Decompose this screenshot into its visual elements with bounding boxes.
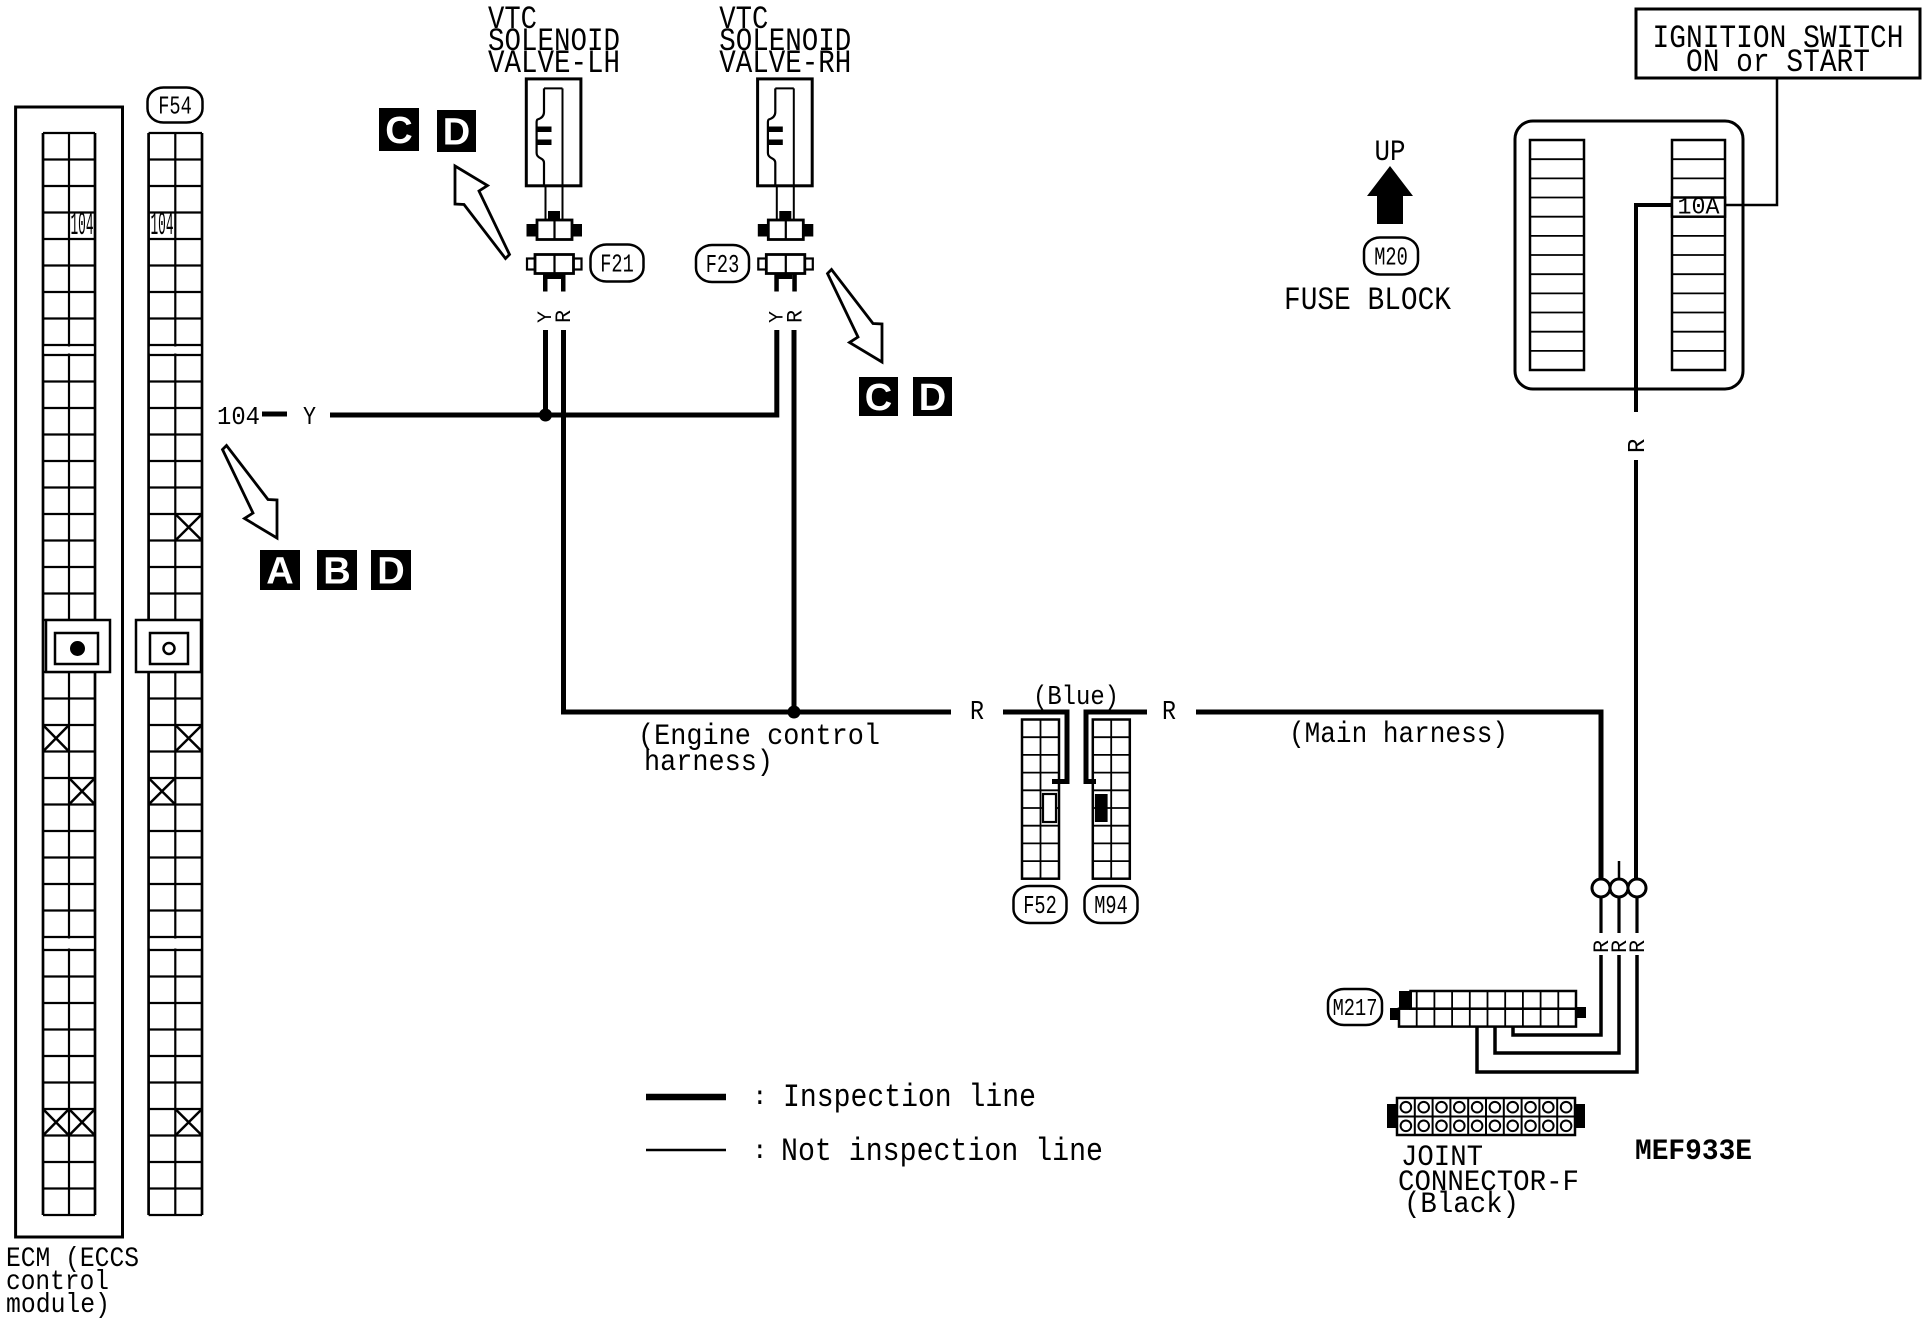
connector F52 label (1014, 886, 1067, 923)
X marks (F54 strip) (149, 514, 202, 1136)
svg-text::: : (752, 1082, 768, 1112)
wire LH Y vertical (543, 330, 548, 415)
callout boxes C D (top left) (379, 108, 476, 154)
joint connector F (1387, 1098, 1585, 1135)
svg-text:ON or START: ON or START (1686, 44, 1870, 81)
svg-text:R: R (970, 698, 984, 728)
svg-text:M20: M20 (1374, 243, 1408, 273)
solenoid valve LH body (526, 79, 581, 186)
coil RH (767, 127, 783, 133)
wire fuse to inline connector (1634, 460, 1638, 879)
fuse column right (1672, 140, 1725, 370)
svg-text:104: 104 (71, 207, 94, 244)
fuse 10A (1672, 195, 1725, 222)
svg-text::: : (752, 1136, 768, 1166)
VTC solenoid valve LH label (488, 1, 620, 82)
svg-text:VALVE-RH: VALVE-RH (719, 45, 851, 82)
arrow to A B D (223, 446, 278, 539)
svg-text:Not inspection line: Not inspection line (781, 1133, 1103, 1170)
wires to joint connector (loops) (1477, 897, 1637, 1072)
connector M217 (1390, 991, 1586, 1027)
fuse column left (1530, 140, 1584, 370)
connector F21 label (591, 245, 644, 282)
F54 terminal box (open circle) (136, 620, 201, 672)
valve LH connector (male half) (527, 186, 583, 240)
svg-text:R: R (1162, 698, 1176, 728)
wire into M94 (1086, 712, 1147, 782)
connector M20 label (1364, 238, 1418, 275)
svg-text:UP: UP (1375, 136, 1406, 170)
wire ignition switch to fuse (1725, 78, 1777, 205)
label ECM (ECCS control module) (6, 1244, 139, 1321)
inline connector circles (1592, 879, 1646, 897)
junction dot (RH R) (788, 706, 801, 719)
node 104 wire label (217, 402, 316, 432)
svg-text:A: A (266, 551, 293, 593)
connector M217 label (1328, 989, 1382, 1025)
legend inspection line (646, 1079, 1036, 1116)
connector F54 label (148, 88, 203, 123)
svg-text:C: C (865, 377, 892, 419)
svg-text:F54: F54 (158, 92, 192, 122)
svg-text:104: 104 (217, 402, 260, 432)
svg-text:R: R (1626, 940, 1651, 953)
svg-text:F23: F23 (706, 250, 740, 280)
svg-text:(Blue): (Blue) (1033, 683, 1119, 713)
wire main harness (1196, 712, 1601, 879)
svg-text:module): module) (6, 1290, 110, 1321)
ECM connector shell (16, 107, 123, 1237)
connector M94 label (1085, 886, 1138, 923)
connector half below (harness side, RH) (758, 255, 813, 292)
svg-text:R: R (783, 310, 808, 323)
svg-text:F52: F52 (1023, 891, 1057, 921)
valve RH connector (male half) (758, 186, 814, 240)
legend not inspection line (646, 1133, 1103, 1170)
connector F52 grid (1022, 720, 1059, 879)
wire 104-Y to valves (330, 330, 777, 415)
svg-text:F21: F21 (600, 250, 634, 280)
ECM terminal box (filled dot) (46, 620, 110, 672)
solenoid valve RH body (758, 79, 813, 186)
fuse block shell (1515, 121, 1743, 389)
junction dot (LH Y) (539, 409, 552, 422)
svg-text:D: D (377, 551, 404, 593)
callout boxes C D (right) (859, 377, 952, 419)
ECM connector grid (43, 133, 95, 1215)
svg-text:R: R (552, 310, 577, 323)
ignition switch box (1636, 9, 1920, 81)
connector F54 grid (149, 133, 202, 1215)
svg-text:D: D (443, 112, 470, 154)
pin wire colors Y R (RH) (766, 310, 808, 323)
wire LH R down to engine harness (564, 330, 952, 712)
svg-text:MEF933E: MEF933E (1635, 1135, 1752, 1169)
svg-text:M217: M217 (1333, 996, 1378, 1023)
pin wire colors Y R (LH) (535, 310, 577, 323)
svg-text:FUSE BLOCK: FUSE BLOCK (1284, 282, 1452, 319)
svg-text:VALVE-LH: VALVE-LH (488, 45, 620, 82)
svg-text:(Black): (Black) (1404, 1188, 1519, 1222)
svg-text:(Main harness): (Main harness) (1289, 718, 1508, 752)
svg-text:Inspection line: Inspection line (783, 1079, 1036, 1116)
F52 slot (open) (1043, 794, 1056, 822)
callout boxes A B D (260, 550, 411, 593)
coil LH (536, 127, 552, 133)
pin 104 label (F54) (151, 207, 174, 244)
svg-text:Y: Y (303, 402, 316, 432)
svg-text:harness): harness) (644, 746, 773, 780)
label R (fuse wire) (1625, 439, 1652, 453)
label JOINT CONNECTOR-F (Black) (1398, 1141, 1579, 1222)
connector M94 grid (1093, 720, 1130, 879)
svg-text:104: 104 (151, 207, 174, 244)
wire RH R vertical (792, 330, 797, 712)
labels R R R (1590, 940, 1651, 953)
arrow to C D (right) (828, 270, 883, 363)
M94 slot (filled) (1095, 794, 1108, 822)
connector half below (harness side, LH) (527, 255, 582, 292)
svg-text:R: R (1625, 439, 1652, 453)
svg-text:10A: 10A (1678, 195, 1721, 222)
connector F23 label (696, 245, 749, 282)
arrow to C D (top) (455, 166, 510, 259)
label UP with arrow (1367, 136, 1413, 224)
svg-text:M94: M94 (1094, 891, 1128, 921)
VTC solenoid valve RH label (719, 1, 851, 82)
svg-text:C: C (385, 110, 412, 152)
wire into F52 (1003, 712, 1067, 782)
svg-text:D: D (919, 377, 946, 419)
wire fuse 10A down (1636, 205, 1672, 412)
label engine control harness (638, 720, 880, 780)
stub above middle circle (1618, 861, 1621, 879)
X marks (ECM strip) (43, 725, 95, 1136)
svg-text:B: B (323, 551, 350, 593)
pin 104 label (ECM) (71, 207, 94, 244)
